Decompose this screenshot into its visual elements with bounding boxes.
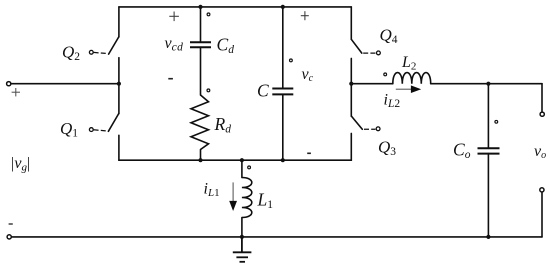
wire bottom return rail — [11, 236, 542, 238]
pin circle L1 — [248, 166, 251, 169]
gate dashed line Q3 dashes — [364, 128, 375, 130]
minus sign input — [9, 223, 13, 225]
junction dot C bottom — [281, 158, 285, 162]
pin circle Cd — [207, 13, 210, 16]
junction dot Co top — [486, 82, 490, 86]
current arrow iL2 — [396, 85, 421, 93]
wire right leg middle (Q4 bottom / Q3 top) — [350, 58, 352, 116]
wire Rd bottom lead — [200, 150, 202, 161]
svg-text:Co: Co — [453, 140, 471, 162]
switch Q1 arm — [108, 114, 118, 132]
junction dot L1 top — [240, 158, 244, 162]
wire top rail — [119, 6, 351, 8]
svg-text:Q1: Q1 — [60, 119, 78, 140]
capacitor C plates — [272, 88, 293, 90]
junction dot Rd bottom — [198, 158, 202, 162]
plus sign vc — [301, 11, 309, 20]
wire C top lead — [282, 7, 284, 89]
gate dashed line Q4 — [363, 52, 375, 54]
junction node A — [117, 82, 121, 86]
wire L2 to output — [431, 83, 542, 85]
minus sign vc — [307, 152, 311, 154]
wire node B to L2 — [351, 83, 393, 85]
junction dot Co bottom — [486, 235, 490, 239]
gate terminal circle Q1 — [89, 128, 93, 132]
inductor L1 — [242, 178, 252, 218]
junction dot L1 bottom — [240, 235, 244, 239]
svg-text:C: C — [257, 81, 269, 101]
pin circle Rd — [207, 89, 210, 92]
wire left leg lower (Q1 bottom lead) — [118, 135, 120, 160]
wire L1 top lead — [241, 160, 243, 177]
wire Co top lead — [487, 84, 489, 149]
junction dot top C — [281, 5, 285, 9]
switch Q3 arm — [352, 116, 363, 129]
capacitor Cd plates — [190, 41, 211, 43]
switch Q4 arm — [351, 39, 362, 53]
svg-text:iL2: iL2 — [384, 92, 401, 111]
wire right leg lower (Q3 bottom lead) — [350, 133, 352, 160]
svg-text:vo: vo — [534, 143, 546, 161]
svg-text:|vg|: |vg| — [10, 155, 30, 174]
svg-text:vc: vc — [302, 66, 314, 84]
gate dashed line Q1 — [94, 130, 108, 131]
wire L1 bottom lead — [241, 218, 243, 237]
plus sign input — [12, 88, 20, 96]
gate terminal circle Q4 — [377, 51, 381, 55]
svg-text:L2: L2 — [401, 54, 416, 73]
inductor L2 — [393, 73, 431, 84]
switch Q2 arm — [109, 37, 119, 54]
capacitor Co plates — [478, 147, 500, 149]
gate terminal circle Q3 — [376, 127, 380, 131]
svg-text:iL1: iL1 — [204, 181, 220, 200]
current arrow iL1 — [229, 182, 237, 211]
svg-text:Rd: Rd — [214, 114, 232, 136]
svg-text:vcd: vcd — [165, 35, 184, 54]
minus sign vcd — [168, 78, 173, 80]
wire C bottom lead — [282, 94, 284, 160]
junction node B — [349, 82, 353, 86]
junction dot top Cd — [198, 5, 202, 9]
resistor Rd — [191, 95, 209, 150]
wire input to node A — [10, 83, 119, 85]
wire right leg upper (Q4 top lead) — [350, 7, 352, 39]
wire Cd to Rd lead — [200, 47, 202, 95]
input terminal + — [7, 82, 11, 86]
output terminal - — [540, 188, 544, 192]
svg-text:Q3: Q3 — [378, 138, 396, 159]
svg-text:Q4: Q4 — [380, 26, 398, 47]
plus sign vcd — [169, 12, 179, 22]
pin circle L2 — [384, 73, 387, 76]
gate dashed line Q2 — [94, 52, 108, 53]
output terminal + — [540, 112, 544, 116]
ground — [233, 237, 252, 262]
svg-text:L1: L1 — [257, 190, 274, 212]
wire left leg middle (Q2 bottom / Q1 top) — [118, 58, 120, 114]
wire output bottom drop — [541, 192, 543, 237]
svg-text:Q2: Q2 — [62, 43, 80, 64]
pin circle C — [290, 59, 293, 62]
wire output top drop — [541, 84, 543, 112]
input terminal - — [7, 235, 11, 239]
wire Cd top lead — [200, 7, 202, 42]
wire Co bottom lead — [487, 154, 489, 237]
wire left leg upper (Q2 top lead) — [118, 7, 120, 37]
gate terminal circle Q2 — [89, 50, 93, 54]
wire bridge bottom rail — [119, 159, 351, 161]
pin circle Co — [495, 120, 498, 123]
svg-text:Cd: Cd — [217, 35, 235, 57]
